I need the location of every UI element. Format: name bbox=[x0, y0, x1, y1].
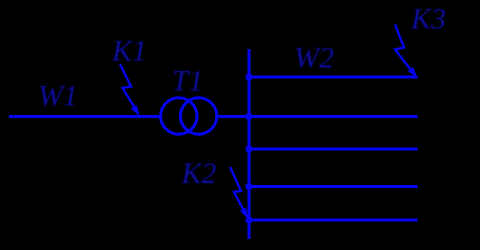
junction dot feeder 4 bbox=[245, 183, 252, 190]
svg-text:W1: W1 bbox=[38, 80, 78, 113]
transformer T1 bbox=[161, 98, 217, 134]
svg-text:K1: K1 bbox=[111, 35, 147, 68]
junction dot feeder 5 bbox=[245, 216, 252, 223]
junction dot feeder 3 bbox=[245, 145, 252, 152]
wire transformer to busbar and feeder 2 bbox=[217, 115, 418, 118]
wire feeder 3 bbox=[249, 148, 418, 151]
junction dot feeder 2 bbox=[245, 113, 252, 120]
svg-text:K3: K3 bbox=[410, 3, 446, 36]
svg-text:T1: T1 bbox=[172, 65, 204, 98]
wire feeder 1 W2 bbox=[249, 76, 418, 79]
fault arrow K1 lightning bolt bbox=[120, 64, 139, 115]
wire W1 incoming line bbox=[9, 115, 161, 118]
fault arrow K3 lightning bolt bbox=[395, 25, 417, 78]
busbar vertical bbox=[248, 49, 251, 239]
fault arrow K2 lightning bolt bbox=[230, 167, 248, 218]
svg-text:W2: W2 bbox=[294, 42, 334, 75]
junction dot feeder 1 bbox=[245, 73, 252, 80]
wire feeder 4 bbox=[249, 185, 418, 188]
wire feeder 5 bbox=[249, 219, 418, 222]
svg-text:K2: K2 bbox=[180, 157, 216, 190]
